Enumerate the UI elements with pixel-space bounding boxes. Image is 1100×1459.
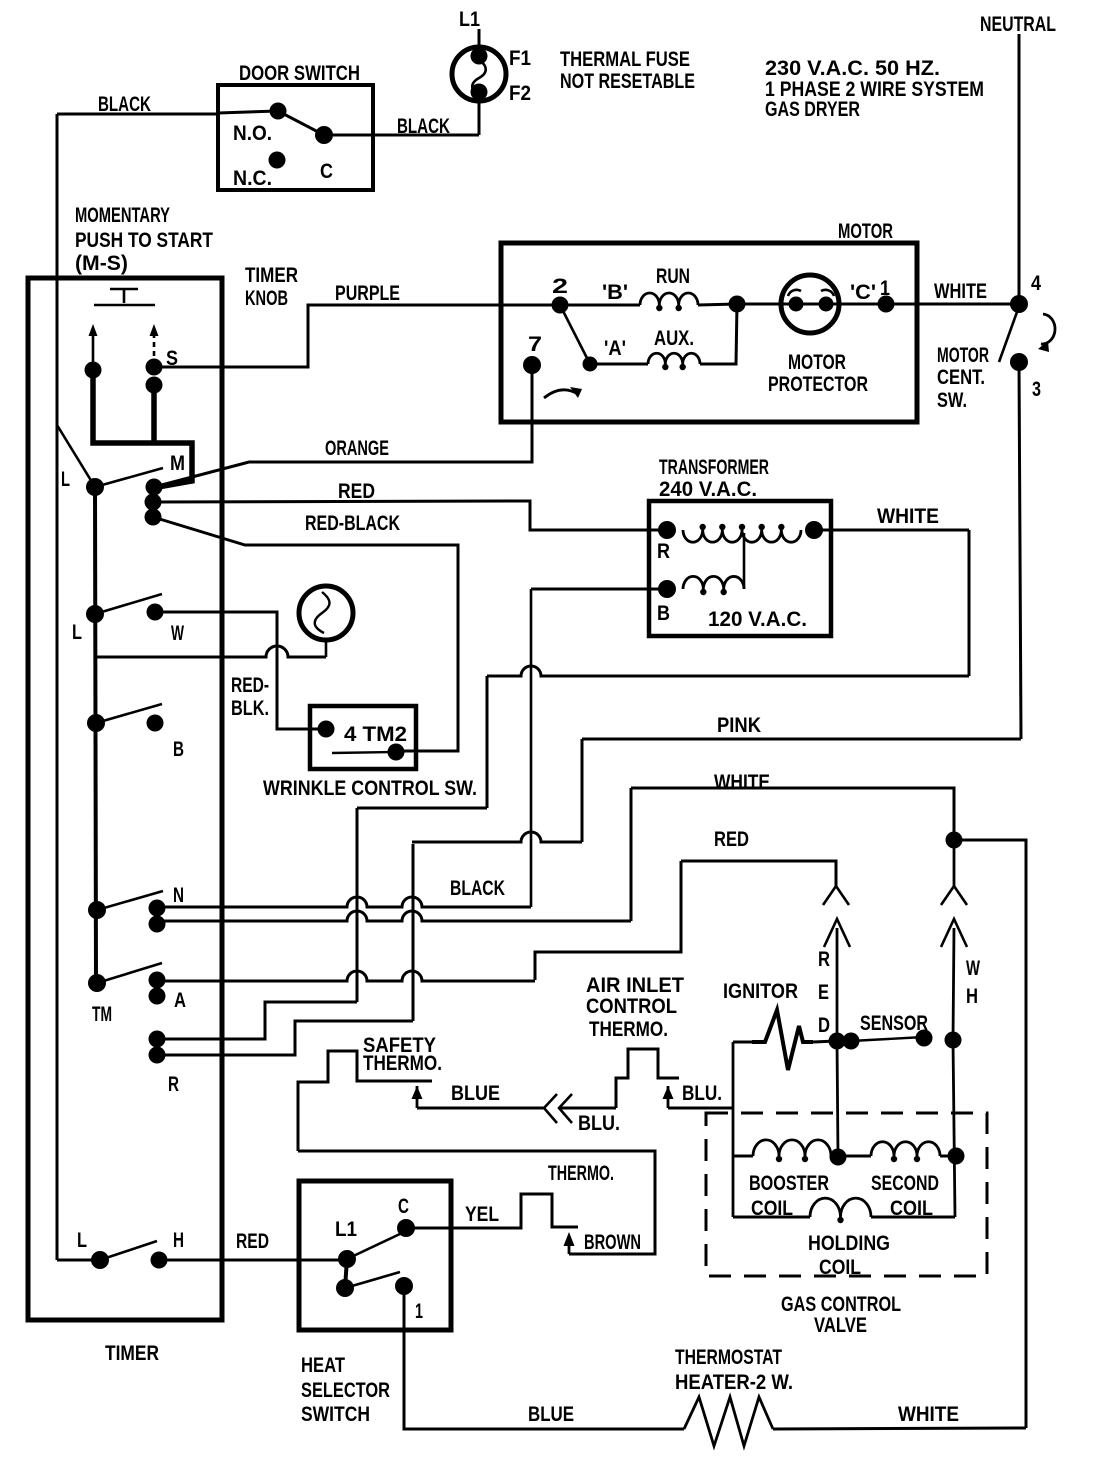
svg-text:230 V.A.C. 50 HZ.: 230 V.A.C. 50 HZ. bbox=[765, 57, 940, 80]
svg-text:TIMER: TIMER bbox=[245, 264, 298, 287]
svg-text:HOLDING: HOLDING bbox=[808, 1232, 890, 1255]
svg-text:PURPLE: PURPLE bbox=[335, 282, 400, 305]
svg-text:R: R bbox=[168, 1073, 179, 1096]
svg-text:F2: F2 bbox=[509, 82, 531, 105]
svg-text:BROWN: BROWN bbox=[584, 1231, 641, 1254]
svg-text:7: 7 bbox=[528, 333, 542, 356]
svg-text:B: B bbox=[657, 602, 670, 625]
svg-text:SENSOR: SENSOR bbox=[860, 1012, 928, 1035]
svg-text:BLACK: BLACK bbox=[450, 877, 505, 900]
svg-text:THERMO.: THERMO. bbox=[589, 1018, 668, 1041]
svg-text:MOTOR: MOTOR bbox=[937, 344, 989, 367]
svg-text:4 TM2: 4 TM2 bbox=[344, 723, 407, 746]
svg-text:M: M bbox=[170, 452, 185, 475]
svg-text:GAS CONTROL: GAS CONTROL bbox=[781, 1293, 901, 1316]
svg-text:L: L bbox=[72, 621, 82, 644]
svg-text:BLUE: BLUE bbox=[528, 1403, 574, 1426]
svg-text:GAS DRYER: GAS DRYER bbox=[765, 98, 860, 121]
svg-text:HEATER-2 W.: HEATER-2 W. bbox=[675, 1371, 793, 1394]
svg-text:TRANSFORMER: TRANSFORMER bbox=[659, 456, 769, 479]
svg-text:L: L bbox=[61, 468, 70, 491]
svg-text:CENT.: CENT. bbox=[937, 366, 985, 389]
svg-text:1: 1 bbox=[415, 1300, 423, 1323]
svg-text:C: C bbox=[320, 160, 333, 183]
svg-text:D: D bbox=[818, 1014, 830, 1037]
svg-text:PUSH TO START: PUSH TO START bbox=[75, 229, 213, 252]
svg-text:RED: RED bbox=[714, 828, 749, 851]
svg-text:DOOR SWITCH: DOOR SWITCH bbox=[239, 62, 360, 85]
svg-text:N.O.: N.O. bbox=[233, 122, 272, 145]
svg-text:SWITCH: SWITCH bbox=[301, 1403, 370, 1426]
svg-text:TM: TM bbox=[92, 1003, 112, 1026]
svg-text:PROTECTOR: PROTECTOR bbox=[768, 373, 868, 396]
svg-text:HEAT: HEAT bbox=[301, 1354, 345, 1377]
svg-text:MOMENTARY: MOMENTARY bbox=[75, 204, 170, 227]
svg-text:BLACK: BLACK bbox=[397, 115, 450, 138]
svg-text:TIMER: TIMER bbox=[105, 1342, 159, 1365]
svg-text:(M-S): (M-S) bbox=[75, 252, 128, 275]
svg-text:THERMOSTAT: THERMOSTAT bbox=[675, 1346, 782, 1369]
svg-text:SW.: SW. bbox=[937, 389, 967, 412]
svg-text:WHITE: WHITE bbox=[934, 280, 987, 303]
svg-text:MOTOR: MOTOR bbox=[788, 351, 846, 374]
svg-text:R: R bbox=[818, 948, 830, 971]
svg-text:C: C bbox=[398, 1195, 409, 1218]
svg-text:240 V.A.C.: 240 V.A.C. bbox=[659, 478, 757, 501]
svg-text:120 V.A.C.: 120 V.A.C. bbox=[708, 608, 807, 631]
svg-text:WRINKLE CONTROL SW.: WRINKLE CONTROL SW. bbox=[263, 777, 477, 800]
svg-text:N.C.: N.C. bbox=[233, 167, 272, 190]
svg-text:'B': 'B' bbox=[602, 281, 628, 304]
svg-text:AIR INLET: AIR INLET bbox=[586, 974, 684, 997]
svg-text:W: W bbox=[966, 957, 980, 980]
svg-text:BOOSTER: BOOSTER bbox=[749, 1172, 829, 1195]
svg-text:SECOND: SECOND bbox=[871, 1172, 939, 1195]
svg-text:THERMAL FUSE: THERMAL FUSE bbox=[560, 48, 690, 71]
svg-text:BLU.: BLU. bbox=[578, 1112, 620, 1135]
svg-text:2: 2 bbox=[552, 275, 568, 298]
svg-text:F1: F1 bbox=[509, 47, 531, 70]
svg-text:RED-BLACK: RED-BLACK bbox=[305, 512, 400, 535]
svg-text:COIL: COIL bbox=[890, 1197, 933, 1220]
svg-text:SELECTOR: SELECTOR bbox=[301, 1379, 390, 1402]
svg-text:H: H bbox=[966, 985, 978, 1008]
svg-text:3: 3 bbox=[1032, 378, 1041, 401]
svg-text:MOTOR: MOTOR bbox=[838, 220, 893, 243]
svg-text:IGNITOR: IGNITOR bbox=[723, 980, 798, 1003]
svg-text:VALVE: VALVE bbox=[814, 1314, 867, 1337]
svg-text:N: N bbox=[173, 884, 184, 907]
svg-text:H: H bbox=[173, 1229, 184, 1252]
svg-text:RED: RED bbox=[236, 1230, 269, 1253]
svg-text:BLU.: BLU. bbox=[682, 1082, 722, 1105]
svg-text:E: E bbox=[818, 981, 829, 1004]
svg-text:4: 4 bbox=[1031, 272, 1041, 295]
svg-text:L: L bbox=[77, 1229, 87, 1252]
svg-text:RED: RED bbox=[338, 480, 375, 503]
svg-text:ORANGE: ORANGE bbox=[325, 437, 389, 460]
svg-text:WHITE: WHITE bbox=[898, 1403, 959, 1426]
svg-text:YEL: YEL bbox=[465, 1203, 499, 1226]
svg-text:B: B bbox=[173, 738, 184, 761]
svg-text:KNOB: KNOB bbox=[245, 287, 288, 310]
svg-text:THERMO.: THERMO. bbox=[363, 1052, 442, 1075]
svg-text:PINK: PINK bbox=[717, 714, 761, 737]
svg-text:RED-: RED- bbox=[231, 674, 269, 697]
svg-text:WHITE: WHITE bbox=[877, 505, 939, 528]
svg-text:NOT RESETABLE: NOT RESETABLE bbox=[560, 70, 695, 93]
svg-text:NEUTRAL: NEUTRAL bbox=[980, 13, 1056, 36]
svg-text:L1: L1 bbox=[335, 1218, 357, 1241]
svg-text:WHITE: WHITE bbox=[714, 771, 770, 794]
svg-text:THERMO.: THERMO. bbox=[548, 1162, 614, 1185]
svg-text:BLK.: BLK. bbox=[231, 697, 269, 720]
svg-text:L1: L1 bbox=[459, 8, 480, 31]
svg-text:BLUE: BLUE bbox=[451, 1082, 500, 1105]
svg-text:RUN: RUN bbox=[656, 265, 690, 288]
svg-text:R: R bbox=[657, 540, 670, 563]
svg-text:A: A bbox=[174, 989, 186, 1012]
svg-text:'A': 'A' bbox=[604, 337, 626, 360]
svg-text:CONTROL: CONTROL bbox=[586, 995, 677, 1018]
svg-text:'C': 'C' bbox=[850, 281, 876, 304]
svg-text:COIL: COIL bbox=[751, 1197, 793, 1220]
svg-text:W: W bbox=[171, 622, 184, 645]
svg-text:AUX.: AUX. bbox=[654, 327, 694, 350]
